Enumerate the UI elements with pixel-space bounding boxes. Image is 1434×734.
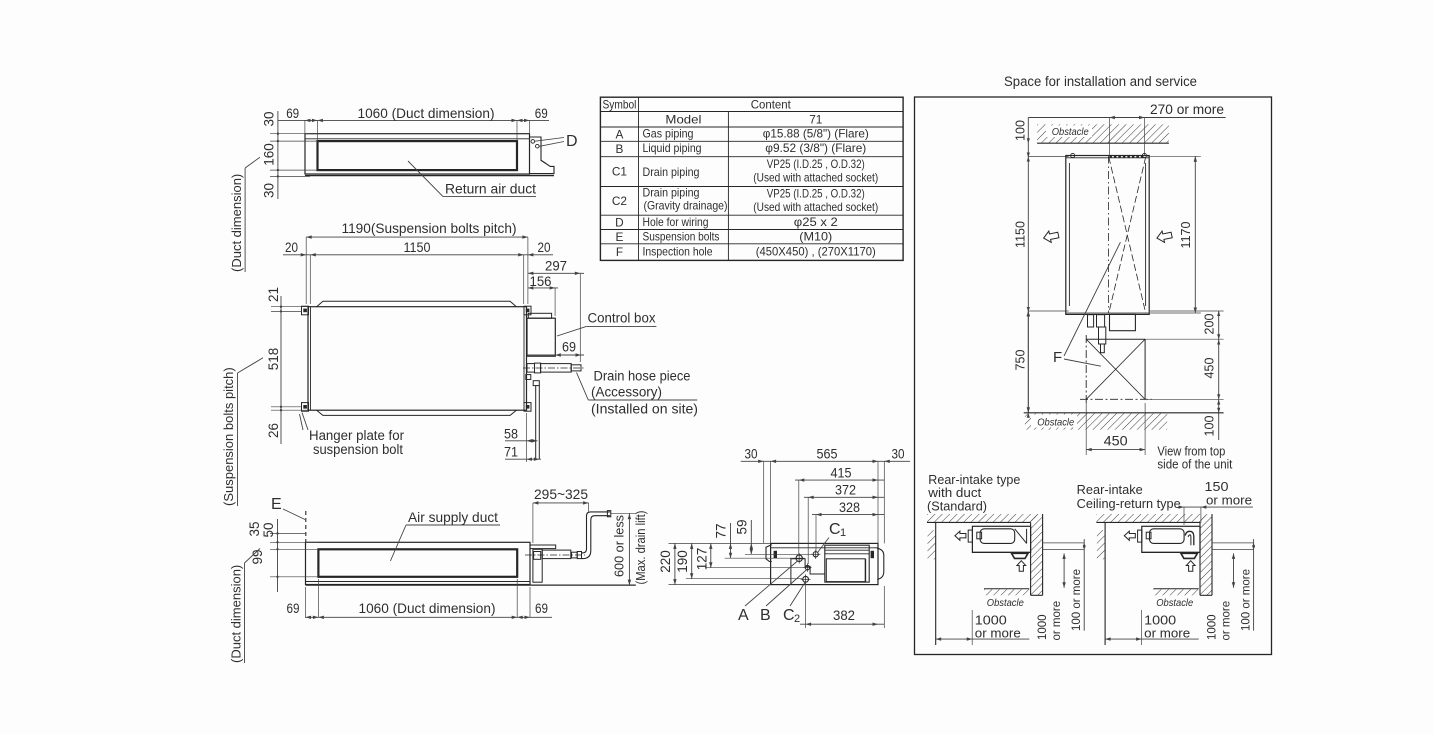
svg-text:D: D — [566, 133, 578, 150]
svg-text:(Installed on site): (Installed on site) — [591, 402, 698, 417]
svg-text:suspension bolt: suspension bolt — [313, 442, 403, 457]
svg-text:Content: Content — [751, 97, 792, 111]
svg-text:φ15.88 (5/8") (Flare): φ15.88 (5/8") (Flare) — [763, 127, 869, 141]
svg-text:A: A — [616, 127, 624, 141]
svg-text:B: B — [616, 142, 624, 156]
svg-text:69: 69 — [286, 105, 299, 121]
svg-text:A: A — [738, 607, 749, 624]
svg-text:(Used with attached socket): (Used with attached socket) — [753, 200, 878, 214]
svg-text:1: 1 — [840, 527, 846, 539]
svg-text:F: F — [616, 245, 623, 259]
svg-text:C: C — [783, 607, 795, 624]
svg-text:20: 20 — [538, 239, 551, 255]
svg-text:φ25 x 2: φ25 x 2 — [794, 215, 838, 229]
svg-text:(Duct dimension): (Duct dimension) — [229, 174, 244, 272]
svg-text:C2: C2 — [612, 194, 627, 208]
svg-text:Ceiling-return type: Ceiling-return type — [1077, 497, 1181, 511]
svg-text:26: 26 — [266, 423, 281, 438]
svg-text:2: 2 — [794, 613, 800, 625]
svg-text:or more: or more — [1220, 601, 1232, 641]
svg-text:C1: C1 — [612, 165, 627, 179]
svg-text:30: 30 — [262, 111, 277, 126]
svg-text:1000: 1000 — [1206, 614, 1218, 640]
svg-text:1150: 1150 — [1014, 221, 1028, 248]
svg-text:450: 450 — [1203, 358, 1217, 379]
svg-text:Model: Model — [665, 112, 701, 126]
svg-text:220: 220 — [658, 550, 673, 573]
svg-text:69: 69 — [287, 600, 300, 616]
svg-text:with duct: with duct — [927, 486, 982, 500]
svg-text:100 or more: 100 or more — [1071, 569, 1083, 631]
svg-text:(Suspension bolts pitch): (Suspension bolts pitch) — [221, 367, 236, 506]
svg-text:382: 382 — [833, 607, 855, 623]
svg-text:100: 100 — [1014, 120, 1028, 141]
svg-text:(Used with attached socket): (Used with attached socket) — [753, 171, 878, 185]
svg-text:VP25 (I.D.25 , O.D.32): VP25 (I.D.25 , O.D.32) — [767, 187, 865, 201]
svg-text:side of the unit: side of the unit — [1157, 457, 1232, 472]
svg-text:Inspection hole: Inspection hole — [643, 245, 713, 259]
svg-text:69: 69 — [535, 105, 548, 121]
svg-text:VP25 (I.D.25 , O.D.32): VP25 (I.D.25 , O.D.32) — [767, 157, 865, 171]
svg-text:59: 59 — [735, 519, 750, 534]
svg-text:565: 565 — [817, 446, 838, 462]
svg-text:71: 71 — [809, 112, 822, 126]
svg-text:Symbol: Symbol — [602, 97, 636, 111]
svg-text:518: 518 — [266, 348, 281, 371]
svg-text:58: 58 — [504, 426, 518, 442]
svg-text:or more: or more — [1051, 601, 1063, 641]
svg-text:100: 100 — [1203, 416, 1217, 437]
svg-text:100 or more: 100 or more — [1240, 569, 1252, 631]
svg-text:372: 372 — [835, 482, 856, 498]
svg-text:Gas piping: Gas piping — [643, 127, 694, 141]
svg-text:30: 30 — [262, 183, 277, 198]
svg-text:297: 297 — [545, 258, 567, 274]
svg-text:F: F — [1053, 349, 1062, 366]
svg-text:20: 20 — [285, 239, 298, 255]
svg-text:Obstacle: Obstacle — [987, 597, 1024, 609]
svg-text:Suspension bolts: Suspension bolts — [643, 230, 720, 244]
svg-text:295~325: 295~325 — [534, 486, 588, 502]
svg-text:1170: 1170 — [1179, 222, 1193, 249]
svg-text:600 or less: 600 or less — [612, 515, 627, 577]
svg-text:450: 450 — [1104, 434, 1128, 449]
svg-text:190: 190 — [675, 550, 690, 573]
svg-text:415: 415 — [831, 465, 852, 481]
svg-text:Control box: Control box — [588, 311, 656, 326]
svg-text:or more: or more — [1144, 626, 1190, 641]
svg-text:21: 21 — [266, 287, 281, 302]
svg-text:(Gravity drainage): (Gravity drainage) — [644, 199, 728, 213]
svg-text:(Max. drain lift): (Max. drain lift) — [634, 511, 648, 585]
svg-text:1060 (Duct dimension): 1060 (Duct dimension) — [359, 600, 496, 616]
svg-text:69: 69 — [535, 600, 548, 616]
svg-text:D: D — [615, 215, 624, 229]
svg-text:Rear-intake: Rear-intake — [1077, 483, 1143, 497]
svg-text:1190(Suspension bolts pitch): 1190(Suspension bolts pitch) — [342, 221, 517, 236]
svg-text:Hole for wiring: Hole for wiring — [643, 215, 709, 229]
svg-text:750: 750 — [1014, 350, 1028, 371]
svg-text:(M10): (M10) — [799, 230, 832, 244]
svg-text:or more: or more — [975, 626, 1021, 641]
svg-text:127: 127 — [695, 548, 710, 571]
svg-text:99: 99 — [250, 549, 265, 564]
svg-text:77: 77 — [714, 523, 729, 538]
svg-text:(450X450) , (270X1170): (450X450) , (270X1170) — [756, 245, 876, 259]
svg-text:Hanger plate for: Hanger plate for — [309, 428, 404, 443]
svg-text:φ9.52 (3/8") (Flare): φ9.52 (3/8") (Flare) — [765, 141, 866, 155]
svg-text:Rear-intake type: Rear-intake type — [928, 473, 1020, 487]
svg-text:1150: 1150 — [404, 239, 431, 255]
svg-text:69: 69 — [562, 339, 576, 355]
svg-text:C: C — [829, 521, 841, 538]
svg-text:270 or more: 270 or more — [1150, 101, 1224, 117]
svg-text:Liquid piping: Liquid piping — [643, 141, 702, 155]
svg-text:(Accessory): (Accessory) — [591, 385, 662, 400]
svg-text:E: E — [271, 496, 282, 513]
svg-text:71: 71 — [504, 444, 518, 460]
svg-text:(Duct dimension): (Duct dimension) — [229, 565, 244, 663]
svg-text:(Standard): (Standard) — [927, 500, 987, 514]
svg-text:B: B — [760, 607, 771, 624]
svg-text:E: E — [616, 230, 624, 244]
svg-text:200: 200 — [1203, 314, 1217, 335]
svg-text:328: 328 — [839, 499, 860, 515]
svg-text:Obstacle: Obstacle — [1037, 417, 1074, 429]
svg-text:160: 160 — [262, 143, 277, 166]
svg-text:Air supply duct: Air supply duct — [408, 509, 498, 525]
svg-text:1060 (Duct dimension): 1060 (Duct dimension) — [358, 105, 495, 121]
svg-text:1000: 1000 — [1037, 614, 1049, 640]
svg-text:Return air duct: Return air duct — [445, 181, 536, 197]
svg-text:Drain piping: Drain piping — [643, 165, 700, 179]
svg-text:or more: or more — [1206, 493, 1252, 508]
svg-text:30: 30 — [745, 446, 758, 462]
svg-text:Drain hose piece: Drain hose piece — [594, 369, 691, 384]
svg-text:30: 30 — [892, 446, 905, 462]
svg-text:Obstacle: Obstacle — [1156, 597, 1193, 609]
svg-text:Space for installation and ser: Space for installation and service — [1004, 74, 1197, 89]
svg-text:50: 50 — [261, 522, 276, 537]
svg-text:35: 35 — [247, 521, 262, 536]
svg-text:Obstacle: Obstacle — [1052, 126, 1089, 138]
svg-text:Drain piping: Drain piping — [643, 186, 700, 200]
